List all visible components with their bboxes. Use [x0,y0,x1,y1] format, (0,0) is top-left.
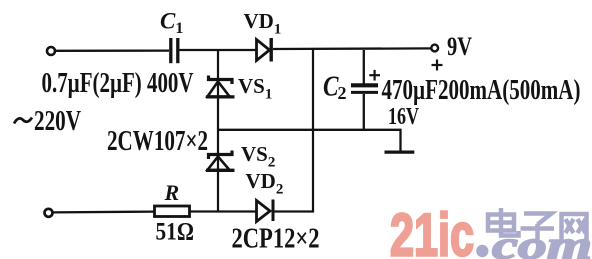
svg-text:16V: 16V [388,104,419,130]
capacitor C2 (electrolytic) [351,85,378,92]
svg-text:2CP12×2: 2CP12×2 [232,224,320,255]
svg-text:2CW107×2: 2CW107×2 [107,126,208,157]
zener diode VS2 [206,151,235,171]
svg-text:C: C [323,72,339,103]
label C2 [323,72,347,104]
diode VD2 [257,200,274,222]
watermark logo wang (Chinese: net) [562,214,587,241]
wire: left vertical branch (node A down through VS1, VS2 to bottom rail) [217,50,219,212]
label + polarity of C2 [369,70,380,81]
svg-text:2: 2 [338,83,347,103]
diode VD1 [257,38,272,62]
wire: top rail from input terminal to C1 [56,49,170,52]
svg-text:0.7µF(2µF) 400V: 0.7µF(2µF) 400V [42,68,194,99]
watermark logo zi (Chinese: child) [521,214,555,242]
svg-text:VS1: VS1 [238,74,272,103]
wire: bottom rail from input terminal to resistor R [53,210,155,213]
capacitor C1 [171,38,178,63]
terminal: AC neutral input (bottom left) [45,209,53,217]
ground [385,129,415,152]
svg-text:C1: C1 [160,9,183,38]
label ~220V [14,106,81,137]
svg-text:VD2: VD2 [246,169,284,198]
svg-text:51Ω: 51Ω [156,219,195,246]
watermark logo dot of .com [476,245,488,257]
svg-text:470µF200mA(500mA): 470µF200mA(500mA) [382,75,581,106]
svg-text:9V: 9V [447,32,472,61]
resistor R [155,206,190,217]
wire: right vertical branch (top rail down to bottom rail) [312,50,314,212]
svg-text:21ic: 21ic [390,202,474,259]
svg-text:220V: 220V [34,106,81,137]
svg-text:R: R [164,180,180,205]
wire: bottom rail from VD2 cathode to right vertical branch [274,210,314,212]
wire: top rail from VD1 cathode to output terminal [273,47,432,50]
wire: middle horizontal rail (zener midpoint to ground, C2 negative) [218,129,401,131]
wire: C2 top lead from top rail [363,50,365,84]
terminal: AC live input (top left) [47,47,55,55]
wire: top rail from C1 to VD1 anode [179,49,256,51]
wire: C2 bottom lead to middle rail [363,94,365,130]
zener diode VS1 [206,76,235,97]
watermark logo dian (Chinese: electric) [488,208,519,236]
wire: bottom rail from R to VD2 anode [190,210,257,212]
terminal: DC output 9V (top right) [431,45,438,52]
label + polarity of output [432,60,443,71]
svg-text:VD1: VD1 [244,9,282,38]
svg-text:VS2: VS2 [241,142,275,171]
